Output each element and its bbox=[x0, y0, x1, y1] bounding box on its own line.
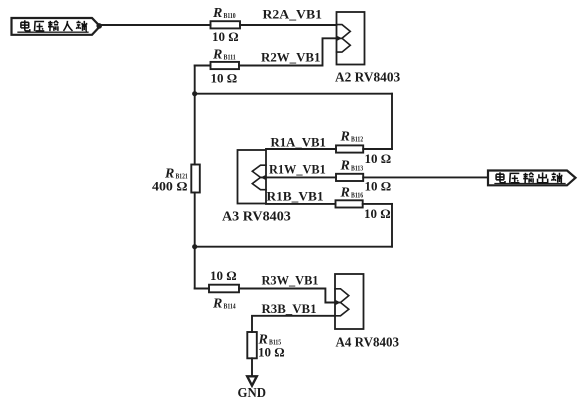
wire vertical rail upper (R_B111 to R_B121) bbox=[194, 66, 196, 165]
svg-text:10 Ω: 10 Ω bbox=[211, 71, 238, 86]
wire right vertical upper bbox=[391, 94, 393, 149]
svg-text:10 Ω: 10 Ω bbox=[258, 345, 285, 360]
hanzi 入 bbox=[63, 21, 72, 31]
node junction dot rail/loop-bottom bbox=[192, 244, 197, 249]
hanzi 压 bbox=[34, 22, 44, 31]
svg-text:B112: B112 bbox=[351, 136, 364, 144]
A2 wiper entry arrow bbox=[337, 36, 342, 41]
resistor R_B116 bbox=[336, 200, 363, 207]
ground GND arrow bbox=[247, 376, 257, 385]
wire loop bottom horizontal bbox=[195, 246, 392, 248]
svg-text:A3 RV8403: A3 RV8403 bbox=[222, 209, 291, 224]
svg-text:10 Ω: 10 Ω bbox=[364, 206, 391, 221]
wire rail elbow to R_B111 bbox=[195, 65, 211, 67]
svg-text:GND: GND bbox=[238, 385, 267, 400]
resistor R_B121 bbox=[191, 165, 200, 193]
svg-text:R3W_VB1: R3W_VB1 bbox=[262, 274, 319, 288]
svg-text:R: R bbox=[340, 158, 350, 173]
A2 potentiometer wedge top bbox=[337, 25, 351, 39]
A4 wiper entry arrow bbox=[335, 300, 340, 305]
resistor R_B114 bbox=[209, 285, 239, 293]
port flag 电压输入端 (voltage input terminal) bbox=[12, 18, 101, 35]
hanzi 电 bbox=[496, 172, 505, 183]
svg-text:R: R bbox=[212, 6, 222, 21]
resistor R_B111 bbox=[211, 62, 240, 69]
svg-text:R1W_VB1: R1W_VB1 bbox=[269, 162, 326, 176]
svg-text:R3B_VB1: R3B_VB1 bbox=[262, 302, 317, 316]
svg-text:B111: B111 bbox=[224, 54, 237, 62]
port flag 电压输出端 (voltage output terminal) bbox=[488, 171, 576, 186]
wire A3 pin A to R_B112 (net R1A_VB1) bbox=[266, 148, 336, 150]
svg-text:A2 RV8403: A2 RV8403 bbox=[335, 70, 400, 85]
A3 wiper entry arrow bbox=[261, 175, 266, 180]
wire R_B113 to output flag bbox=[363, 176, 488, 178]
node junction dot rail/loop-top bbox=[192, 91, 197, 96]
svg-text:B114: B114 bbox=[224, 303, 237, 311]
svg-text:10 Ω: 10 Ω bbox=[365, 179, 392, 194]
IC A2 RV8403 digital potentiometer body bbox=[337, 12, 365, 65]
node: input terminal junction dot bbox=[96, 23, 102, 29]
wire A3 pin B to R_B116 (net R1B_VB1) bbox=[266, 203, 336, 205]
hanzi text 电压输出端 inside output flag bbox=[496, 172, 562, 183]
hanzi 压 bbox=[510, 173, 520, 182]
svg-text:B113: B113 bbox=[351, 164, 364, 172]
svg-text:10 Ω: 10 Ω bbox=[212, 29, 239, 44]
hanzi 输 bbox=[48, 21, 58, 31]
hanzi 电 bbox=[21, 20, 30, 31]
svg-text:R2W_VB1: R2W_VB1 bbox=[261, 50, 321, 64]
wire loop top horizontal bbox=[195, 93, 392, 95]
wire rail elbow to R_B114 bbox=[195, 288, 209, 290]
IC A4 RV8403 digital potentiometer body bbox=[335, 274, 364, 329]
A4 potentiometer wedge top bbox=[335, 289, 349, 303]
wire vertical rail lower (R_B121 to R_B114) bbox=[194, 193, 196, 289]
svg-text:R: R bbox=[212, 297, 222, 312]
hanzi 端 bbox=[552, 173, 563, 183]
svg-text:10 Ω: 10 Ω bbox=[365, 151, 392, 166]
wire R_B110 to A2 pin A (net R2A_VB1) bbox=[240, 24, 337, 26]
resistor R_B115 bbox=[247, 332, 256, 358]
svg-text:R: R bbox=[212, 48, 222, 63]
wire R_B115 to ground bbox=[251, 358, 253, 376]
svg-text:10 Ω: 10 Ω bbox=[210, 268, 237, 283]
svg-text:R1B_VB1: R1B_VB1 bbox=[267, 189, 324, 203]
svg-text:B116: B116 bbox=[351, 191, 364, 199]
svg-text:A4 RV8403: A4 RV8403 bbox=[336, 335, 400, 350]
A2 potentiometer wedge bottom bbox=[337, 38, 351, 52]
A3 potentiometer wedge top bbox=[252, 165, 266, 177]
wire right vertical lower bbox=[391, 204, 393, 247]
wire A3 wiper to R_B113 (net R1W_VB1) bbox=[266, 176, 336, 178]
svg-text:R2A_VB1: R2A_VB1 bbox=[263, 7, 323, 21]
wire input to R_B110 bbox=[100, 24, 211, 26]
resistor R_B112 bbox=[336, 145, 363, 152]
svg-text:R: R bbox=[340, 185, 350, 200]
hanzi 输 bbox=[523, 173, 533, 183]
resistor R_B113 bbox=[336, 174, 363, 181]
svg-text:B110: B110 bbox=[224, 12, 237, 20]
wire R_B114 to A4 wiper (net R3W_VB1) bbox=[239, 289, 335, 303]
A4 potentiometer wedge bottom bbox=[335, 303, 349, 316]
hanzi 端 bbox=[76, 21, 87, 31]
wire R_B112 to right vertical bbox=[363, 148, 392, 150]
hanzi text 电压输入端 inside input flag bbox=[21, 20, 87, 31]
A3 potentiometer wedge bottom bbox=[252, 177, 266, 189]
wire R_B116 to right vertical bbox=[363, 203, 392, 205]
hanzi 出 bbox=[538, 172, 548, 182]
resistor R_B110 bbox=[211, 21, 241, 28]
svg-text:400 Ω: 400 Ω bbox=[152, 178, 188, 193]
wire R_B111 to A2 wiper (net R2W_VB1) bbox=[239, 38, 337, 65]
IC A3 RV8403 digital potentiometer body bbox=[238, 150, 267, 204]
svg-text:R1A_VB1: R1A_VB1 bbox=[271, 135, 326, 149]
wire A4 pin B to R_B115 (net R3B_VB1) bbox=[252, 316, 335, 332]
svg-text:R: R bbox=[340, 130, 350, 145]
